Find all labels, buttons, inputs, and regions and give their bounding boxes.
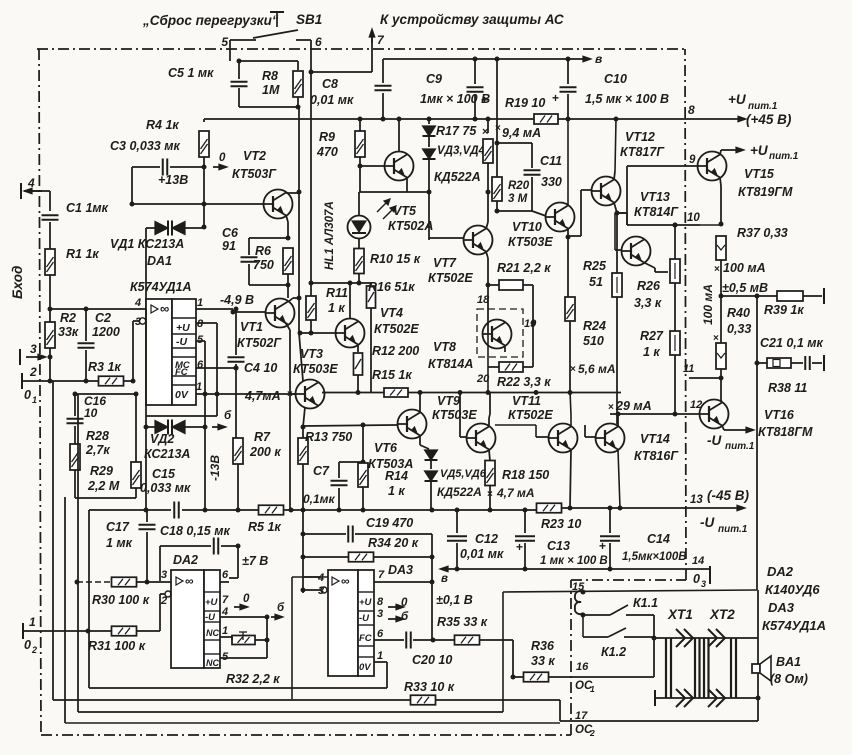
- DA1 pin6 wire to C4: [196, 367, 236, 369]
- svg-text:+U: +U: [728, 92, 747, 107]
- svg-text:2,2 М: 2,2 М: [87, 479, 120, 493]
- wire VT13 base: [615, 249, 622, 251]
- wire XT right edge: [757, 590, 759, 721]
- svg-text:VT14: VT14: [640, 432, 670, 446]
- svg-text:20: 20: [476, 373, 490, 385]
- terminal 1 / 02: [22, 623, 24, 639]
- DA1 0V pin wire to VT3 base: [196, 393, 296, 395]
- wire 29mA: [610, 413, 700, 415]
- capacitor C11: [524, 169, 541, 171]
- resistor R35: [433, 639, 456, 641]
- resistor R18: [485, 461, 495, 486]
- wire: [49, 191, 51, 211]
- svg-text:1,5 мк × 100 В: 1,5 мк × 100 В: [585, 92, 669, 106]
- svg-text:R25: R25: [583, 259, 607, 273]
- svg-text:VT12: VT12: [625, 130, 655, 144]
- wire 9 to VT15 base: [627, 165, 699, 167]
- wire VD2 sides down: [145, 427, 147, 510]
- resistor R29: [135, 394, 137, 462]
- wire VD4 to VT7 base: [429, 237, 464, 239]
- svg-text:С19 470: С19 470: [366, 516, 413, 530]
- wire: [428, 119, 430, 124]
- svg-text:9,4 мА: 9,4 мА: [502, 126, 541, 140]
- transistor VT6 KT503A: [398, 410, 427, 439]
- contact K1.2: [583, 636, 608, 638]
- svg-text:в: в: [595, 52, 602, 66]
- resistor R26: [674, 225, 676, 259]
- svg-text:R15 1к: R15 1к: [372, 368, 412, 382]
- svg-text:R26: R26: [637, 279, 661, 293]
- transistor VT15 KT819GM: [698, 152, 727, 181]
- wire VT15 emitter: [720, 178, 721, 187]
- resistor R6: [283, 248, 293, 274]
- svg-text:1: 1: [590, 684, 595, 694]
- svg-text:R39 1к: R39 1к: [764, 303, 804, 317]
- resistor R14: [361, 423, 366, 428]
- svg-text:R21 2,2 к: R21 2,2 к: [497, 261, 551, 275]
- svg-text:470: 470: [316, 145, 338, 159]
- capacitor C15 series: [173, 502, 175, 519]
- svg-text:пит.1: пит.1: [748, 101, 778, 112]
- svg-text:С15: С15: [152, 467, 176, 481]
- capacitor C4: [235, 309, 237, 355]
- svg-text:(-45 В): (-45 В): [707, 488, 750, 503]
- wire +45V rail: [204, 118, 686, 120]
- wire VT7 emitter: [486, 252, 488, 259]
- svg-text:±0,5 мВ: ±0,5 мВ: [722, 281, 768, 295]
- XT2 contact bars: [730, 638, 732, 698]
- svg-text:BA1: BA1: [776, 655, 801, 669]
- svg-text:100 мА: 100 мА: [723, 261, 766, 275]
- wire nested 1: [52, 381, 54, 700]
- svg-text:VT4: VT4: [380, 306, 403, 320]
- transistor VT4 KT502E: [336, 319, 365, 348]
- wire VT12 base: [581, 189, 592, 191]
- svg-text:5: 5: [197, 334, 204, 346]
- transistor VT8 KT814A: [483, 320, 512, 349]
- wire VT5 collector: [398, 119, 400, 152]
- svg-text:R28: R28: [86, 429, 109, 443]
- svg-text:КТ819ГМ: КТ819ГМ: [738, 185, 793, 199]
- svg-text:С3 0,033 мк: С3 0,033 мк: [110, 139, 180, 153]
- svg-text:КТ503Е: КТ503Е: [508, 235, 553, 249]
- svg-text:±7 В: ±7 В: [242, 554, 268, 568]
- svg-text:С12: С12: [475, 532, 498, 546]
- wire input 01: [22, 380, 99, 382]
- svg-text:91: 91: [222, 239, 236, 253]
- svg-text:КТ816Г: КТ816Г: [634, 449, 679, 463]
- svg-text:R33 10 к: R33 10 к: [404, 680, 455, 694]
- wire pin4 column: [291, 577, 293, 699]
- svg-text:К574УД1А: К574УД1А: [130, 280, 192, 294]
- svg-text:КС213А: КС213А: [144, 447, 190, 461]
- svg-text:+: +: [481, 93, 488, 107]
- svg-text:R10 15 к: R10 15 к: [370, 252, 421, 266]
- svg-text:VT10: VT10: [512, 220, 542, 234]
- svg-text:ХТ1: ХТ1: [667, 607, 693, 622]
- wire VT6 collector: [419, 393, 421, 413]
- transistor VT11 KT502E: [549, 424, 578, 453]
- svg-text:0,01 мк: 0,01 мк: [310, 93, 354, 107]
- DA1 pin8 wire loop: [196, 322, 217, 324]
- wire VD1 node down to DA1: [145, 228, 147, 309]
- svg-text:NС: NС: [206, 628, 219, 638]
- wire ground sense line: [444, 568, 710, 570]
- svg-text:5: 5: [221, 35, 228, 49]
- wire rail right: [561, 507, 686, 509]
- XT middle contact bars: [694, 638, 696, 698]
- svg-text:R1 1к: R1 1к: [66, 247, 99, 261]
- wire VT16 emitter arrow: [722, 426, 724, 431]
- capacitor C2: [85, 309, 87, 341]
- svg-text:R35 33 к: R35 33 к: [437, 615, 488, 629]
- svg-text:С13: С13: [547, 539, 570, 553]
- svg-text:R37 0,33: R37 0,33: [737, 226, 788, 240]
- wire VT3 collector: [299, 333, 303, 381]
- svg-text:0V: 0V: [175, 389, 189, 401]
- svg-text:1: 1: [29, 615, 36, 629]
- wire OC1 to XT: [649, 676, 654, 678]
- speaker BA1: [752, 664, 760, 673]
- svg-text:КТ502Г: КТ502Г: [237, 336, 282, 350]
- svg-text:5,6 мА: 5,6 мА: [578, 362, 616, 376]
- svg-text:1 к: 1 к: [388, 484, 405, 498]
- svg-text:9: 9: [689, 154, 696, 166]
- svg-text:0: 0: [219, 152, 226, 164]
- svg-text:3: 3: [135, 316, 141, 328]
- svg-text:К140УД6: К140УД6: [765, 582, 820, 597]
- svg-text:КТ503Е: КТ503Е: [432, 408, 477, 422]
- terminal 3: [19, 349, 21, 365]
- svg-text:-U: -U: [359, 613, 370, 624]
- svg-text:VT2: VT2: [243, 149, 266, 163]
- svg-text:VT3: VT3: [300, 347, 323, 361]
- svg-text:1 к: 1 к: [328, 301, 345, 315]
- resistor R11: [310, 119, 312, 297]
- svg-text:33к: 33к: [58, 325, 79, 339]
- svg-text:∞: ∞: [185, 574, 194, 588]
- transistor VT14 KT816G: [596, 424, 625, 453]
- svg-text:б: б: [277, 602, 285, 614]
- DA3 output node column: [431, 534, 433, 640]
- resistor R3: [99, 376, 124, 386]
- svg-text:0,1мк: 0,1мк: [303, 492, 336, 506]
- capacitor C13: [524, 510, 526, 533]
- capacitor C3: [132, 166, 160, 168]
- transistor VT1 KT502G: [266, 299, 295, 328]
- wire VT9 emitter: [489, 450, 490, 462]
- svg-text:510: 510: [583, 334, 604, 348]
- svg-text:DА3: DА3: [388, 563, 413, 577]
- svg-text:2: 2: [29, 365, 37, 379]
- svg-text:R36: R36: [531, 639, 555, 653]
- svg-text:R29: R29: [90, 464, 113, 478]
- wire VT6 emitter: [419, 436, 421, 446]
- diode VD5: [425, 450, 438, 460]
- wire VT5 base: [360, 165, 385, 167]
- wire: [239, 106, 298, 108]
- svg-text:-U: -U: [176, 336, 187, 348]
- wire input 02: [23, 630, 112, 632]
- svg-text:0,01 мк: 0,01 мк: [460, 547, 504, 561]
- svg-text:0: 0: [24, 638, 31, 652]
- resistor R16: [370, 283, 372, 285]
- svg-text:51: 51: [589, 275, 603, 289]
- terminal 2 / 01: [21, 373, 23, 389]
- svg-text:-U: -U: [700, 515, 715, 530]
- svg-text:С11: С11: [540, 154, 562, 168]
- svg-text:4: 4: [134, 297, 141, 309]
- svg-text:КТ502Е: КТ502Е: [508, 408, 553, 422]
- wire VT16 collector: [721, 400, 722, 403]
- svg-text:4: 4: [27, 176, 35, 190]
- svg-text:1: 1: [197, 297, 203, 309]
- svg-text:С7: С7: [313, 464, 330, 478]
- wire R35 to R36: [512, 640, 514, 677]
- resistor R24: [565, 297, 575, 321]
- wire VT4 collector: [349, 283, 351, 319]
- wire bottom return: [560, 720, 758, 722]
- svg-text:-U: -U: [205, 612, 216, 623]
- node wire: [48, 307, 53, 312]
- svg-text:КТ502Е: КТ502Е: [428, 271, 473, 285]
- svg-text:VT7: VT7: [433, 256, 457, 270]
- XT chevrons top: [676, 629, 685, 647]
- svg-text:КД522А: КД522А: [437, 485, 482, 499]
- relay coil K1: [581, 590, 586, 595]
- svg-text:3: 3: [30, 342, 37, 356]
- capacitor C20: [405, 632, 407, 649]
- svg-text:+U: +U: [205, 597, 219, 608]
- wire: [229, 49, 231, 61]
- wire top rail b: [383, 58, 584, 60]
- svg-text:R4 1к: R4 1к: [146, 118, 179, 132]
- wire VT14 base: [585, 436, 596, 438]
- svg-text:К устройству защиты АС: К устройству защиты АС: [380, 12, 564, 27]
- svg-text:4,7 мА: 4,7 мА: [496, 486, 535, 500]
- svg-text:0: 0: [401, 597, 408, 609]
- wire VT5 emitter: [406, 177, 408, 192]
- svg-text:×: ×: [608, 402, 614, 413]
- op-amp DA1 symbol: [151, 305, 158, 313]
- wire VT9 collector: [488, 418, 490, 427]
- svg-text:„Сброс перегрузки“: „Сброс перегрузки“: [142, 13, 279, 28]
- capacitor C16: [67, 418, 84, 420]
- svg-text:R31 100 к: R31 100 к: [88, 639, 146, 653]
- wire nested 3: [77, 394, 79, 712]
- resistor R28: [70, 444, 80, 470]
- svg-text:NС: NС: [206, 658, 219, 668]
- svg-text:8: 8: [377, 596, 384, 608]
- svg-text:ХТ2: ХТ2: [709, 607, 735, 622]
- svg-text:1: 1: [32, 395, 37, 405]
- wire: [249, 284, 288, 286]
- svg-text:пит.1: пит.1: [725, 441, 755, 452]
- resistor R7: [233, 438, 243, 464]
- capacitor C7: [338, 462, 340, 478]
- svg-text:R5 1к: R5 1к: [248, 520, 281, 534]
- transistor VT3 KT503E: [296, 380, 325, 409]
- svg-text:VT15: VT15: [744, 167, 775, 181]
- wire VT9 base: [460, 436, 467, 438]
- svg-text:R2: R2: [60, 311, 76, 325]
- svg-text:0: 0: [24, 388, 31, 402]
- svg-text:R20: R20: [508, 180, 530, 192]
- svg-text:±0,1 В: ±0,1 В: [436, 593, 473, 607]
- svg-text:КТ502А: КТ502А: [388, 219, 433, 233]
- svg-text:14: 14: [692, 555, 704, 567]
- svg-text:33 к: 33 к: [531, 654, 555, 668]
- svg-text:R34 20 к: R34 20 к: [368, 536, 419, 550]
- wire K contacts join: [653, 615, 655, 638]
- svg-text:КТ503Г: КТ503Г: [232, 167, 277, 181]
- svg-text:×: ×: [714, 264, 720, 275]
- wire SB1 node 6 down: [310, 49, 312, 119]
- svg-text:С18 0,15 мк: С18 0,15 мк: [160, 524, 230, 538]
- wire VT8 base: [487, 285, 489, 333]
- svg-text:+: +: [599, 539, 606, 553]
- svg-text:R9: R9: [319, 130, 335, 144]
- svg-text:(+45 В): (+45 В): [746, 112, 792, 127]
- svg-text:пит.1: пит.1: [718, 524, 748, 535]
- svg-text:3: 3: [701, 579, 706, 589]
- svg-text:-13В: -13В: [208, 455, 222, 481]
- wire VT2 collector to R8 column: [286, 192, 299, 194]
- svg-text:VT1: VT1: [240, 320, 263, 334]
- wire VT3 base: [290, 393, 296, 395]
- svg-text:С2: С2: [95, 311, 111, 325]
- wire VT11 emitter: [570, 450, 571, 509]
- terminal 4 input: [20, 183, 22, 199]
- svg-text:∞: ∞: [160, 301, 169, 316]
- node 0 arrow: [202, 165, 207, 170]
- capacitor C6: [241, 256, 258, 258]
- switch SB1: [270, 11, 284, 13]
- resistor R17: [487, 119, 489, 133]
- wire VT12 emitter to VT13: [615, 212, 627, 214]
- svg-text:×: ×: [487, 489, 493, 500]
- resistor R31: [112, 626, 137, 636]
- svg-text:б: б: [401, 611, 409, 623]
- wire XT bottom: [654, 690, 656, 706]
- resistor R10: [354, 249, 364, 274]
- svg-text:(8 Ом): (8 Ом): [770, 672, 808, 686]
- svg-text:10: 10: [687, 212, 700, 224]
- svg-text:VT6: VT6: [374, 441, 398, 455]
- svg-text:1мк × 100 В: 1мк × 100 В: [420, 92, 490, 106]
- wire VT14 collector to 29mA line: [617, 414, 619, 427]
- diode VD6: [430, 461, 432, 469]
- svg-text:0: 0: [243, 593, 250, 605]
- svg-text:1М: 1М: [262, 83, 280, 97]
- dashed box VT8 thermal: [477, 309, 523, 357]
- svg-text:R19 10: R19 10: [505, 96, 545, 110]
- wire VT1 collector up: [288, 298, 293, 302]
- wire VT6 base: [303, 425, 398, 426]
- svg-text:×: ×: [570, 364, 576, 375]
- svg-text:1 мк: 1 мк: [106, 536, 133, 550]
- svg-text:750: 750: [253, 258, 274, 272]
- wire rail: [284, 509, 537, 511]
- svg-text:С21 0,1 мк: С21 0,1 мк: [760, 336, 824, 350]
- svg-text:VT11: VT11: [512, 394, 541, 408]
- svg-text:DА3: DА3: [768, 600, 795, 615]
- svg-text:-U: -U: [707, 433, 722, 448]
- svg-text:SB1: SB1: [296, 12, 322, 27]
- svg-text:FC: FC: [175, 367, 188, 378]
- wire VT14 emitter: [618, 450, 620, 509]
- wire VT1 base: [233, 311, 266, 313]
- svg-text:1: 1: [222, 625, 228, 637]
- resistor R4: [203, 119, 205, 122]
- main mid rail: [322, 392, 384, 394]
- svg-text:0,033 мк: 0,033 мк: [140, 481, 191, 495]
- svg-text:С4 10: С4 10: [244, 361, 277, 375]
- resistor R5: [259, 505, 284, 515]
- capacitor C9: [474, 59, 476, 84]
- svg-text:DА2: DА2: [767, 564, 794, 579]
- svg-text:-4,9 В: -4,9 В: [220, 293, 254, 307]
- svg-text:100 мА: 100 мА: [701, 284, 715, 325]
- svg-text:С20 10: С20 10: [412, 653, 452, 667]
- svg-text:С14: С14: [647, 532, 670, 546]
- resistor R23: [537, 503, 562, 513]
- svg-text:R17 75: R17 75: [436, 124, 477, 138]
- wire VT1 emitter down to rail: [285, 322, 290, 330]
- wire VT10 collector: [567, 119, 569, 206]
- wire VT4 base line: [300, 332, 337, 334]
- wire 10: [627, 224, 700, 226]
- svg-text:+U: +U: [750, 143, 769, 158]
- svg-text:Бход: Бход: [10, 266, 25, 299]
- svg-text:17: 17: [575, 710, 588, 722]
- svg-text:8: 8: [688, 103, 695, 117]
- DA1 output wire: [196, 308, 233, 310]
- resistor R13: [302, 427, 304, 439]
- capacitor C10: [567, 59, 569, 84]
- wire 10 line to VT15 emitter: [700, 224, 721, 226]
- svg-text:С5 1 мк: С5 1 мк: [168, 66, 214, 80]
- resistor R1: [45, 249, 55, 275]
- svg-text:FС: FС: [359, 633, 372, 644]
- svg-text:R38 11: R38 11: [768, 381, 807, 395]
- svg-text:2: 2: [31, 645, 37, 655]
- wire nested 4: [88, 510, 90, 688]
- svg-text:С1 1мк: С1 1мк: [66, 201, 109, 215]
- diode VD3: [423, 126, 436, 136]
- svg-text:С17: С17: [106, 520, 130, 534]
- contact K1.1: [583, 614, 610, 616]
- svg-text:R40: R40: [727, 306, 750, 320]
- capacitor C17: [139, 524, 156, 526]
- svg-text:КТ814А: КТ814А: [428, 357, 473, 371]
- wire VT2 base feed: [132, 203, 205, 205]
- wire VT2 emitter: [286, 215, 288, 222]
- svg-text:К1.2: К1.2: [601, 645, 626, 659]
- svg-text:VД1 КС213А: VД1 КС213А: [110, 237, 184, 251]
- svg-text:VT8: VT8: [433, 340, 456, 354]
- svg-text:1 к: 1 к: [643, 345, 660, 359]
- svg-text:R32 2,2 к: R32 2,2 к: [226, 672, 280, 686]
- svg-text:6: 6: [315, 35, 322, 49]
- svg-text:+U: +U: [176, 322, 190, 334]
- svg-text:К1.1: К1.1: [633, 596, 658, 610]
- svg-text:3 М: 3 М: [508, 193, 528, 205]
- wire VT15 collector arrow: [720, 150, 721, 155]
- svg-text:HL1 АЛ307А: HL1 АЛ307А: [324, 201, 336, 270]
- svg-text:4,7мА: 4,7мА: [244, 389, 281, 403]
- svg-text:2: 2: [589, 728, 595, 738]
